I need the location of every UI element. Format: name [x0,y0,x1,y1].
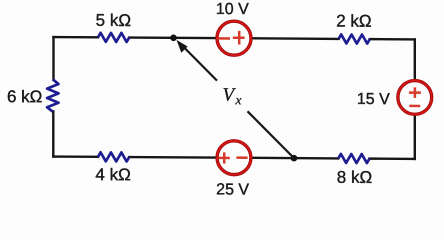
svg-text:10 V: 10 V [216,1,249,18]
svg-text:x: x [235,92,242,107]
svg-text:8 kΩ: 8 kΩ [337,168,372,187]
svg-text:25 V: 25 V [216,181,249,198]
svg-text:6 kΩ: 6 kΩ [7,87,42,106]
svg-text:4 kΩ: 4 kΩ [95,165,130,184]
svg-text:15 V: 15 V [357,91,390,108]
svg-text:2 kΩ: 2 kΩ [336,11,371,30]
svg-text:5 kΩ: 5 kΩ [96,11,131,30]
